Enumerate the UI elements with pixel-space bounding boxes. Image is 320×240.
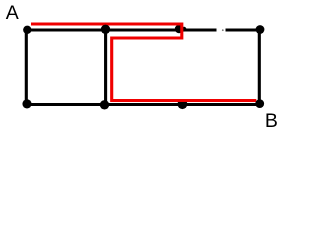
svg-text:A: A bbox=[6, 2, 19, 24]
svg-text:B: B bbox=[265, 110, 278, 132]
